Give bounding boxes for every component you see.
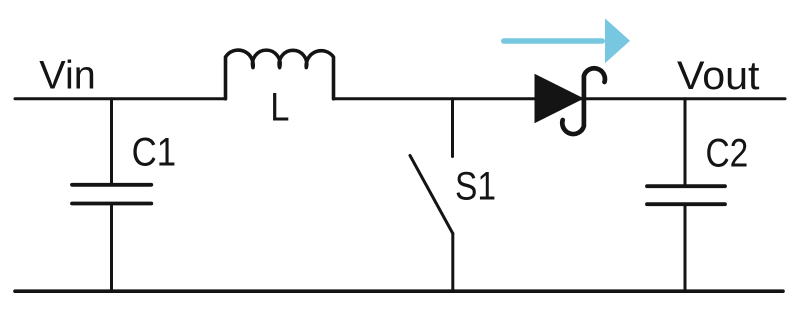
capacitor C2 plates [647, 186, 725, 204]
wire bottom rail [15, 289, 783, 293]
svg-text:L: L [270, 86, 289, 130]
wire S1 branch lower [451, 234, 454, 292]
capacitor C1 plates [72, 185, 151, 204]
svg-text:C1: C1 [132, 131, 177, 175]
wire C2 branch upper [684, 99, 687, 187]
switch S1 blade [410, 156, 453, 234]
wire C1 branch lower [110, 204, 113, 292]
wire S1 branch upper [451, 99, 454, 157]
wire top rail right (inductor to Vout end) [334, 97, 786, 100]
diode D1 triangle [535, 74, 585, 124]
svg-text:C2: C2 [706, 132, 749, 176]
diode D1 curved cathode (integral-shaped) [562, 68, 605, 134]
svg-text:S1: S1 [455, 165, 496, 209]
svg-text:Vin: Vin [39, 54, 96, 98]
wire C2 branch lower [684, 204, 687, 291]
inductor L [226, 50, 334, 99]
wire C1 branch upper [110, 99, 113, 185]
svg-text:Vout: Vout [677, 54, 760, 98]
current-direction arrow (blue) [501, 18, 630, 63]
wire top rail left (Vin to inductor) [15, 97, 226, 100]
